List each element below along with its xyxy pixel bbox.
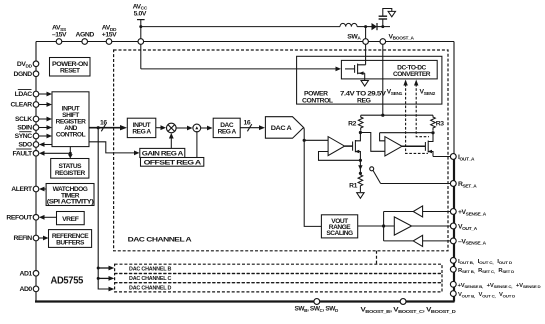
svg-text:(SPI ACTIVITY): (SPI ACTIVITY) — [47, 199, 94, 206]
resistor R2 — [348, 115, 363, 130]
block STATUS REGISTER — [51, 159, 89, 179]
svg-text:CONTROL: CONTROL — [302, 98, 333, 105]
pin DVDD — [17, 61, 39, 69]
op-amp U5 negative sense buffer — [413, 235, 422, 246]
svg-text:FAULT: FAULT — [13, 151, 34, 158]
svg-text:LDAC: LDAC — [15, 91, 33, 98]
wire channel bus vertical to B C D — [97, 128, 110, 289]
wire SYNC to register — [39, 134, 52, 139]
wire SWA pin — [365, 27, 367, 61]
wire scaling output to U3 — [358, 225, 395, 227]
supply AVCC 5.0V — [133, 3, 148, 19]
wire OFFSET REG A to adder — [196, 131, 198, 158]
wire U1 source node down — [359, 160, 361, 174]
net VSEN2 dashed sense line — [414, 80, 436, 137]
pin VOUT_B C D — [450, 291, 515, 299]
wire DAC A output down — [304, 128, 322, 227]
svg-text:ALERT: ALERT — [11, 186, 33, 193]
svg-text:RSET B, RSET C, RSET D: RSET B, RSET C, RSET D — [458, 268, 514, 274]
pin RSET_A — [450, 181, 477, 190]
wire register to gain offset registers — [89, 142, 140, 156]
wire bus arrow to channel C — [98, 276, 114, 281]
op-amp U1 — [328, 137, 345, 156]
svg-text:7.4V TO 29.5V: 7.4V TO 29.5V — [340, 91, 387, 98]
node feedback junction — [359, 159, 362, 162]
wire bus arrow to channel B — [98, 266, 114, 271]
node scaling output junction — [382, 224, 385, 227]
pin REFOUT — [6, 215, 38, 222]
svg-text:16: 16 — [100, 119, 107, 126]
node R2 bottom — [359, 131, 362, 134]
wire U1 feedback — [319, 152, 361, 161]
wire REFOUT from VREF — [39, 215, 57, 220]
block INPUT SHIFT REGISTER AND CONTROL — [52, 92, 89, 147]
svg-text:REG: REG — [357, 98, 371, 105]
wire U4 output to sense bus — [384, 211, 414, 213]
register GAIN REG A — [140, 148, 185, 157]
dashed boundary DAC CHANNEL C — [115, 274, 442, 283]
svg-text:R1: R1 — [349, 183, 357, 190]
rail R2 R3 top — [361, 114, 433, 116]
dac DAC A — [265, 117, 303, 139]
transistor Q3 — [425, 134, 433, 157]
wire inductor to diode — [357, 26, 371, 28]
wire U5 output to sense bus — [384, 240, 414, 242]
pin SCLK — [15, 116, 39, 123]
register DAC REG A — [213, 118, 240, 137]
svg-text:SCLK: SCLK — [15, 116, 32, 123]
wire register to status register — [68, 147, 73, 159]
resistor R1 — [349, 173, 363, 192]
svg-text:POWER: POWER — [304, 91, 328, 98]
op-amp U2 — [385, 137, 402, 156]
node AVCC junction — [139, 25, 142, 28]
block REFERENCE BUFFERS — [49, 230, 92, 248]
wire CLEAR to register — [39, 102, 52, 107]
pin RSET_B C D — [450, 266, 514, 274]
wire multiplier to adder — [176, 126, 193, 131]
svg-text:REG A: REG A — [218, 129, 237, 136]
svg-text:CONVERTER: CONVERTER — [393, 71, 431, 78]
capacitor C1 — [379, 16, 388, 19]
node VBOOST junction — [381, 25, 384, 28]
wire R2 node to U2 positive input — [360, 133, 385, 152]
svg-text:REGISTER: REGISTER — [55, 170, 86, 177]
pin +VSENSE_A — [450, 209, 486, 218]
multiplier gain — [167, 123, 177, 133]
wire U2 output to Q3 gate — [402, 145, 425, 147]
net VSEN1 dashed sense line — [387, 80, 428, 154]
wire U1 output to Q2 gate — [345, 145, 353, 147]
pin VBOOST_B C D — [361, 299, 457, 315]
node DAC A output junction — [303, 139, 306, 142]
block DC-TO-DC CONVERTER — [341, 60, 437, 79]
pin AD1 — [19, 271, 38, 278]
svg-text:GAIN REG A: GAIN REG A — [142, 151, 184, 158]
dashed link channel A to channel B — [376, 251, 378, 264]
block VOUT RANGE SCALING — [321, 215, 357, 238]
pin DGND — [13, 71, 38, 78]
svg-text:R3: R3 — [436, 120, 444, 127]
resistor R3 — [431, 115, 445, 130]
svg-text:SYNC: SYNC — [15, 133, 33, 140]
wire AVCC to regulator gate — [141, 68, 337, 70]
pin CLEAR — [10, 102, 38, 109]
block WATCHDOG TIMER — [46, 184, 94, 206]
wire VBOOST node up to capacitor — [382, 19, 384, 26]
register INPUT REG A — [127, 118, 156, 137]
svg-text:DGND: DGND — [13, 71, 32, 78]
pin +VSENSE_B C D — [450, 281, 540, 289]
wire DAC A output to op-amp U1 — [304, 139, 328, 141]
wire switch to RSET_A — [381, 183, 451, 185]
pin IOUT_A — [450, 154, 475, 163]
op-amp U3 output buffer — [394, 217, 411, 235]
wire +VSENSE_A to U4 — [423, 211, 451, 213]
node R1 top junction — [359, 172, 362, 175]
svg-text:16: 16 — [244, 120, 251, 127]
svg-text:DAC CHANNEL C: DAC CHANNEL C — [129, 276, 172, 282]
svg-text:RESET: RESET — [60, 68, 80, 75]
diode D1 — [372, 23, 378, 30]
wire Q3 source to IOUT_A — [433, 156, 451, 158]
wire U3 output to VOUT_A — [412, 225, 451, 227]
pin AGND — [76, 32, 95, 45]
node R3 bottom — [431, 131, 434, 134]
svg-text:–15V: –15V — [52, 32, 67, 39]
pin SDIN — [17, 125, 39, 132]
pin SWA — [347, 33, 368, 44]
wire bus arrow to channel D — [109, 287, 115, 292]
pin AVSS — [52, 25, 67, 45]
svg-text:REFOUT: REFOUT — [6, 215, 33, 222]
register OFFSET REG A — [141, 158, 204, 167]
arrowhead into regulator — [336, 67, 342, 72]
block VREF — [57, 212, 85, 225]
transistor Q2 — [353, 133, 361, 161]
pin -VSENSE_A — [450, 238, 486, 247]
wire sense bus vertical — [383, 212, 385, 241]
node rail junction VBOOST — [381, 114, 384, 117]
pin VOUT_A — [450, 223, 477, 232]
dashed boundary DAC CHANNEL D — [115, 283, 442, 292]
svg-text:VREF: VREF — [62, 216, 79, 223]
svg-text:REG A: REG A — [132, 129, 151, 136]
svg-text:CONTROL: CONTROL — [56, 132, 86, 139]
svg-text:DAC CHANNEL A: DAC CHANNEL A — [128, 237, 192, 244]
wire INPUT REG A to multiplier — [156, 125, 166, 130]
pin AVDD — [102, 25, 117, 45]
wire SDIN to register — [39, 125, 52, 130]
svg-text:VOUT B, VOUT C, VOUT D: VOUT B, VOUT C, VOUT D — [458, 292, 515, 298]
adder offset — [193, 124, 201, 132]
wire capacitor to ground — [383, 9, 392, 17]
chip outline AD5755 — [35, 42, 455, 302]
wire SCLK to register — [39, 117, 52, 122]
wire ALERT from watchdog — [39, 187, 46, 192]
pin FAULT — [13, 149, 39, 158]
block POWER-ON RESET — [50, 58, 91, 77]
wire LDAC to register — [39, 92, 52, 97]
wire -VSENSE_A to U5 — [423, 240, 451, 242]
pin ALERT — [11, 186, 39, 193]
wire diode to VBOOST node — [377, 26, 390, 28]
svg-text:CLEAR: CLEAR — [10, 102, 32, 109]
pin IOUT_B C D — [450, 258, 512, 266]
ground AGND capacitor — [388, 11, 395, 16]
wire DAC REG A bus 16 to DAC A — [240, 120, 265, 132]
ground R1 — [357, 193, 364, 199]
svg-text:DAC CHANNEL D: DAC CHANNEL D — [129, 285, 172, 291]
svg-text:AD5755: AD5755 — [51, 276, 84, 287]
arrowhead current direction — [358, 165, 362, 170]
block POWER CONTROL — [297, 56, 442, 104]
svg-text:AD0: AD0 — [19, 286, 32, 293]
wire GAIN REG A to multiplier — [169, 133, 174, 149]
svg-text:IOUT B, IOUT C, IOUT D: IOUT B, IOUT C, IOUT D — [458, 259, 512, 265]
transistor Q1 regulator MOSFET — [345, 60, 366, 80]
svg-text:+VSENSE B, +VSENSE C, +VSENSE: +VSENSE B, +VSENSE C, +VSENSE D — [458, 283, 541, 289]
svg-text:SDO: SDO — [18, 142, 32, 149]
svg-text:AD1: AD1 — [19, 271, 32, 278]
wire adder to DAC REG A — [201, 126, 213, 131]
svg-text:R2: R2 — [348, 120, 356, 127]
svg-text:SDIN: SDIN — [17, 125, 32, 132]
pin VBOOST_A — [380, 33, 415, 44]
pin AVCC entry — [138, 39, 144, 45]
svg-text:5.0V: 5.0V — [134, 11, 147, 18]
ground regulator source — [361, 81, 368, 87]
dashed boundary DAC CHANNEL B — [115, 264, 442, 273]
wire VBOOST_A down to R2 R3 rail — [382, 44, 384, 115]
wire AVCC vertical — [140, 20, 142, 69]
wire SDO from register — [39, 142, 52, 147]
pin AD0 — [19, 286, 38, 293]
pin LDAC — [15, 90, 39, 99]
pin SW_B C D — [295, 299, 339, 314]
switch range select — [370, 167, 381, 184]
svg-text:BUFFERS: BUFFERS — [56, 239, 85, 246]
wire AVCC to inductor — [141, 26, 340, 28]
dashed boundary DAC CHANNEL A — [114, 50, 448, 251]
svg-text:DAC A: DAC A — [271, 125, 292, 132]
svg-text:OFFSET REG A: OFFSET REG A — [144, 159, 202, 166]
svg-text:AGND: AGND — [76, 32, 95, 39]
pin REFIN — [14, 235, 39, 242]
wire FAULT from status node — [39, 151, 70, 156]
wire R3 node to U2 negative input — [380, 133, 433, 141]
op-amp U4 positive sense buffer — [413, 206, 422, 217]
svg-text:DAC CHANNEL B: DAC CHANNEL B — [129, 267, 172, 273]
inductor L1 — [340, 23, 357, 26]
node SWA junction — [364, 25, 367, 28]
svg-text:SCALING: SCALING — [326, 230, 353, 237]
svg-text:REFIN: REFIN — [14, 235, 33, 242]
wire data bus 16 to INPUT REG A — [89, 119, 127, 131]
pin SDO — [18, 142, 38, 149]
pin SYNC — [15, 132, 39, 141]
wire REFIN to reference buffers — [39, 236, 49, 241]
svg-text:+15V: +15V — [102, 32, 117, 39]
